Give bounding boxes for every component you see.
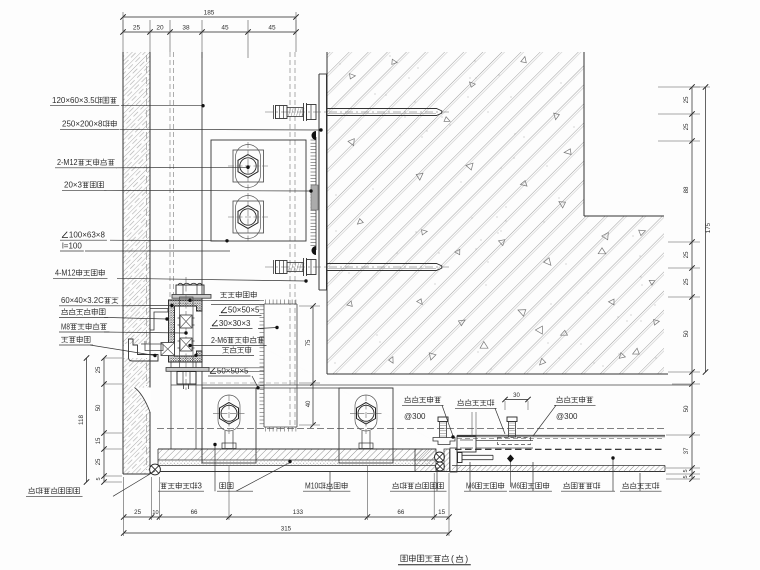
- aluminium seat and stone hooks: [129, 309, 175, 362]
- masonry wall - stone strip: [123, 52, 151, 474]
- label angle 30x30x3: [210, 319, 279, 329]
- stone soffit strip assembly: [158, 449, 665, 472]
- diamond marker: [507, 455, 514, 488]
- svg-text:315: 315: [281, 526, 292, 533]
- soffit end block: [415, 449, 436, 472]
- svg-text:50: 50: [683, 330, 690, 337]
- svg-text:25: 25: [133, 25, 141, 32]
- svg-text:M10: M10: [305, 482, 319, 491]
- svg-text:(: (: [451, 554, 454, 564]
- svg-text:30×30×3: 30×30×3: [219, 319, 251, 328]
- label aluminium sub-frame 2: [620, 473, 662, 491]
- label l=100: [60, 242, 230, 252]
- label at300 1: [404, 412, 426, 421]
- label foam rod and sealant left: [26, 471, 155, 496]
- svg-text:3: 3: [198, 482, 203, 491]
- svg-text:88: 88: [683, 186, 690, 193]
- right dimension chain: [658, 84, 712, 481]
- label M6 machine bolt 2: [509, 462, 552, 491]
- embed plate 250x200x8 face with 2-M12 bolts: [211, 140, 306, 241]
- svg-text:20×3: 20×3: [64, 181, 83, 190]
- svg-text:l=100: l=100: [62, 242, 82, 251]
- line under concrete: [171, 384, 691, 386]
- label aluminium panel ceiling: [561, 456, 615, 491]
- svg-text:@300: @300: [556, 412, 578, 421]
- svg-text:2-M6: 2-M6: [211, 336, 227, 345]
- label angle 50x50x5 upper: [219, 306, 261, 316]
- dashed ceiling line: [157, 428, 665, 430]
- label aluminium sub-frame 1: [455, 399, 505, 434]
- svg-text:66: 66: [191, 509, 198, 516]
- concrete structure section with hatch: [327, 52, 668, 374]
- label M10 carriage bolt: [303, 472, 350, 491]
- M10 carriage bolt right: [350, 395, 382, 449]
- aluminium sub-frame joint: [444, 412, 533, 472]
- svg-text:15: 15: [438, 509, 445, 516]
- label steel tube 120x60x3.5: [50, 96, 205, 107]
- wall inner dashed line: [146, 55, 148, 470]
- isolation angle column with serration: [260, 300, 298, 432]
- svg-text:M6: M6: [466, 482, 475, 491]
- svg-text:@300: @300: [404, 412, 426, 421]
- left dimension chain: [79, 355, 122, 484]
- svg-text:118: 118: [79, 414, 85, 425]
- svg-text:45: 45: [221, 25, 229, 32]
- svg-text:100×63×8: 100×63×8: [69, 231, 106, 240]
- label angle 50x50x5 lower: [208, 366, 260, 389]
- title embedded part node diagram 3: [398, 554, 471, 565]
- label aluminium press block 1: [402, 396, 455, 438]
- svg-text:50×50×5: 50×50×5: [228, 306, 260, 315]
- svg-text:25: 25: [683, 123, 690, 130]
- svg-text:5: 5: [96, 477, 102, 480]
- label at300 2: [556, 412, 578, 421]
- suspended ceiling dash line: [455, 448, 665, 450]
- left hanger body: [202, 388, 256, 463]
- label 4-M12 chemical anchor: [53, 269, 308, 283]
- svg-text:25: 25: [134, 509, 141, 516]
- label 2-M6 stainless bolts: [188, 336, 266, 347]
- C-steel bracket with hanger and M8 bolts: [166, 277, 264, 390]
- label steel plate 250x200x8: [60, 120, 323, 132]
- svg-text:133: 133: [293, 509, 304, 516]
- svg-text:38: 38: [182, 25, 190, 32]
- hanger verticals: [171, 297, 449, 449]
- svg-text:): ): [465, 554, 468, 564]
- svg-text:10: 10: [152, 510, 158, 516]
- svg-text:40: 40: [306, 400, 312, 407]
- svg-text:M6: M6: [511, 482, 520, 491]
- dashed level y383: [202, 382, 297, 384]
- right hanger body: [339, 388, 393, 463]
- top dimension lines 185 / 25 20 38 45 45: [120, 10, 298, 59]
- label M6 machine bolt 1: [464, 462, 507, 491]
- svg-text:185: 185: [204, 10, 215, 17]
- label M8 stainless bolt: [59, 322, 188, 334]
- svg-text:45: 45: [268, 25, 276, 32]
- label insulation isolation layer: [188, 291, 259, 302]
- transition line y388: [202, 387, 393, 389]
- label stone top hook: [59, 336, 157, 357]
- svg-text:5: 5: [683, 475, 689, 478]
- M10 carriage bolt left: [213, 395, 245, 449]
- M6 bolt with press block 1: [433, 417, 455, 445]
- svg-text:25: 25: [96, 366, 102, 373]
- svg-text:15: 15: [96, 437, 102, 444]
- svg-text:30: 30: [513, 393, 520, 399]
- foam rods at panel joint: [435, 452, 445, 471]
- foam rod at wall corner: [150, 464, 161, 475]
- svg-text:20: 20: [156, 25, 164, 32]
- label C-steel 60x40x3.2: [59, 296, 174, 307]
- svg-text:M8: M8: [61, 322, 70, 331]
- svg-text:25: 25: [683, 251, 690, 258]
- svg-text:75: 75: [306, 339, 312, 346]
- bottom dimension chain 315: [121, 466, 452, 536]
- svg-text:4-M12: 4-M12: [55, 269, 76, 278]
- label aluminium press block 2: [533, 396, 596, 436]
- svg-text:60×40×3.2C: 60×40×3.2C: [61, 296, 104, 305]
- mini dim 30: [502, 393, 530, 410]
- svg-text:50: 50: [683, 405, 690, 412]
- svg-text:175: 175: [705, 222, 712, 233]
- mini vertical dim 75 40: [299, 303, 320, 427]
- svg-text:50×50×5: 50×50×5: [217, 366, 249, 375]
- M6 bolt with press block 2: [498, 417, 531, 445]
- svg-text:2-M12: 2-M12: [57, 158, 78, 167]
- label through slot: [217, 460, 292, 491]
- svg-text:37: 37: [683, 447, 690, 454]
- svg-text:120×60×3.5: 120×60×3.5: [52, 96, 95, 105]
- label lightning belt 20x3: [62, 181, 313, 193]
- svg-text:25: 25: [96, 458, 102, 465]
- aluminium-plastic panel: [452, 466, 665, 472]
- label foam rod and sealant mid: [390, 467, 447, 491]
- svg-text:250×200×8: 250×200×8: [62, 120, 103, 129]
- svg-text:25: 25: [683, 96, 690, 103]
- svg-text:5: 5: [683, 469, 689, 472]
- label rubber pad: [194, 347, 254, 357]
- plate side view + insulation layer comb + welds: [311, 74, 327, 290]
- svg-text:66: 66: [397, 509, 404, 516]
- svg-text:25: 25: [683, 278, 690, 285]
- chemical anchor bolt bottom 4-M12: [265, 258, 452, 276]
- chemical anchor bolt top 4-M12: [265, 103, 452, 121]
- label aluminium fixing seat: [59, 308, 169, 320]
- frame top double line: [457, 435, 665, 438]
- svg-text:50: 50: [96, 404, 102, 411]
- label angle 100x63x8: [60, 231, 229, 243]
- steel tube 120x60 hidden lines: [170, 52, 295, 463]
- label stainless hanger 3: [158, 443, 217, 491]
- label 2-M12 stainless bolts: [55, 158, 250, 169]
